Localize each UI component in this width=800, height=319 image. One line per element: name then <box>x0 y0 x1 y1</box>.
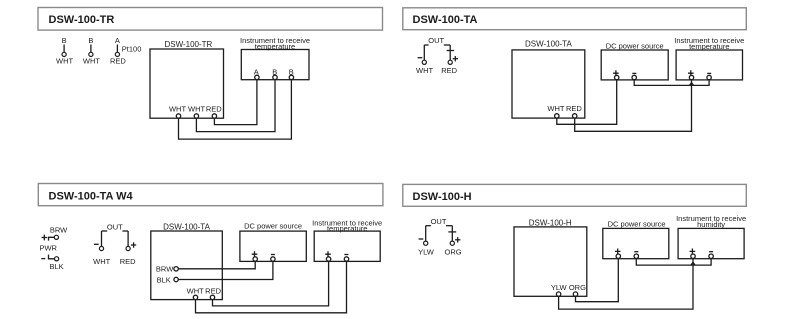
svg-text:DC power source: DC power source <box>606 41 664 50</box>
terminal circle U7 ORG <box>573 292 577 296</box>
svg-text:DSW-100-TR: DSW-100-TR <box>49 14 115 26</box>
terminal circle U5 BRW <box>174 267 178 271</box>
terminal circle U3 WHT <box>555 114 559 118</box>
svg-text:DC power source: DC power source <box>608 219 666 228</box>
panel title box DSW-100-TR <box>38 8 383 31</box>
svg-text:WHT: WHT <box>169 104 186 113</box>
svg-text:DSW-100-TA W4: DSW-100-TA W4 <box>49 191 134 203</box>
output connector OUT (Q2) <box>416 36 458 75</box>
component U3 DSW-100-TA box <box>512 40 585 118</box>
terminal circle U5 RED <box>210 295 214 299</box>
terminal label - (PS1) <box>632 72 636 74</box>
terminal label + (U4) <box>688 70 694 76</box>
svg-text:WHT: WHT <box>416 66 433 75</box>
svg-text:A: A <box>115 36 120 45</box>
terminal label + (PS1) <box>613 70 619 76</box>
svg-text:RED: RED <box>206 104 222 113</box>
sensor pin B (WHT) 2 <box>83 36 100 66</box>
terminal circle U8 + <box>691 254 695 258</box>
terminal circle U4 - <box>707 75 711 79</box>
panel title box DSW-100-TA W4 <box>38 184 383 206</box>
terminal circle U1 WHT1 <box>176 114 180 118</box>
svg-text:YLW: YLW <box>418 248 435 257</box>
svg-text:BLK: BLK <box>50 262 64 271</box>
terminal label - (U4) <box>707 72 711 74</box>
terminal circle PS3 - <box>634 254 638 258</box>
svg-text:RED: RED <box>120 257 136 266</box>
terminal circle PS1 + <box>615 75 619 79</box>
svg-text:BRW: BRW <box>156 265 174 274</box>
terminal label + (U6) <box>325 251 331 257</box>
svg-text:OUT: OUT <box>431 217 447 226</box>
terminal circle PS2 + <box>253 257 257 261</box>
wire U3 WHT to PS1 + <box>557 80 617 125</box>
terminal circle U7 YLW <box>556 292 560 296</box>
wire PS3 - to U8 - <box>636 258 711 265</box>
terminal label - (PS2) <box>271 254 275 256</box>
terminal label + (U8) <box>690 249 696 255</box>
component PS1 DC power source box (Q2) <box>601 41 668 80</box>
terminal label - (PS3) <box>634 251 638 253</box>
component U1 DSW-100-TR transmitter box <box>150 40 224 118</box>
wire hop at crossing (Q2) <box>689 83 694 86</box>
svg-text:BRW: BRW <box>50 226 68 235</box>
terminal circle U2 B1 <box>273 75 277 79</box>
component PS3 DC power source box (Q4) <box>603 219 669 258</box>
wire U5 BRW to PS2 + <box>178 261 255 269</box>
component U5 DSW-100-TA box (Q3) <box>151 223 223 300</box>
terminal circle U3 RED <box>573 114 577 118</box>
terminal label + (PS3) <box>615 249 621 255</box>
power connector PWR (BRW/BLK) <box>39 226 68 271</box>
terminal circle U8 - <box>709 254 713 258</box>
terminal label - (U6) <box>344 254 348 256</box>
terminal circle U2 B2 <box>289 75 293 79</box>
output connector OUT (Q4) <box>418 217 462 257</box>
svg-text:OUT: OUT <box>107 222 123 231</box>
component U4 instrument to receive temperature box (Q2) <box>674 36 744 80</box>
sensor pin B (WHT) 1 <box>56 36 73 66</box>
terminal circle U4 + <box>689 75 693 79</box>
panel title box DSW-100-H <box>403 184 747 206</box>
component U8 instrument to receive humidity box <box>676 214 746 258</box>
component U2 instrument to receive temperature box <box>240 36 310 80</box>
svg-text:WHT: WHT <box>187 287 204 296</box>
wire U1 RED to U2 A <box>214 80 257 125</box>
svg-text:WHT: WHT <box>83 57 100 66</box>
svg-text:DSW-100-TA: DSW-100-TA <box>525 40 572 49</box>
wire U5 RED to U6 + <box>213 261 329 306</box>
svg-text:WHT: WHT <box>93 257 110 266</box>
svg-text:RED: RED <box>566 104 582 113</box>
terminal circle U1 WHT2 <box>194 114 198 118</box>
svg-text:DC power source: DC power source <box>244 221 302 230</box>
svg-text:DSW-100-TA: DSW-100-TA <box>413 14 478 26</box>
terminal circle U6 - <box>344 257 348 261</box>
svg-text:OUT: OUT <box>428 36 444 45</box>
terminal circle U6 + <box>326 257 330 261</box>
terminal circle PS2 - <box>271 257 275 261</box>
terminal circle U1 RED <box>212 114 216 118</box>
output connector OUT (Q3) <box>93 222 136 266</box>
svg-text:RED: RED <box>110 57 126 66</box>
wire U3 RED to U4 + <box>575 80 692 132</box>
svg-text:DSW-100-TA: DSW-100-TA <box>163 223 210 232</box>
svg-text:WHT: WHT <box>547 104 564 113</box>
terminal circle U5 BLK <box>174 277 178 281</box>
svg-text:BLK: BLK <box>157 275 171 284</box>
svg-text:WHT: WHT <box>56 57 73 66</box>
svg-text:DSW-100-H: DSW-100-H <box>413 191 472 203</box>
svg-text:RED: RED <box>441 66 457 75</box>
wire U7 ORG to PS3 + <box>576 258 619 301</box>
svg-text:DSW-100-TR: DSW-100-TR <box>164 40 212 49</box>
terminal circle PS3 + <box>616 254 620 258</box>
svg-text:WHT: WHT <box>188 104 205 113</box>
svg-text:B: B <box>88 36 93 45</box>
terminal label - (U8) <box>709 251 713 253</box>
component U6 instrument to receive temperature box (Q3) <box>312 218 382 261</box>
svg-text:PWR: PWR <box>39 244 57 253</box>
svg-text:B: B <box>62 36 67 45</box>
terminal circle U2 A <box>255 75 259 79</box>
svg-text:RED: RED <box>205 287 221 296</box>
wire U1 WHT2 to U2 B1 <box>196 80 275 132</box>
wire U7 YLW to U8 + <box>559 258 693 309</box>
wire PS1 - to U4 - <box>634 80 709 86</box>
svg-text:ORG: ORG <box>569 283 586 292</box>
wire U1 WHT1 to U2 B2 <box>179 80 292 140</box>
svg-text:temperature: temperature <box>327 224 367 233</box>
wire U5 BLK to PS2 - <box>178 261 273 279</box>
terminal circle U5 WHT <box>193 295 197 299</box>
svg-text:ORG: ORG <box>445 248 462 257</box>
sensor pin A (RED) Pt100 <box>110 36 126 66</box>
terminal circle PS1 - <box>632 75 636 79</box>
component U7 DSW-100-H box <box>514 219 587 297</box>
panel title box DSW-100-TA <box>403 8 747 30</box>
svg-text:Pt100: Pt100 <box>122 45 142 54</box>
wire hop at crossing (Q4) <box>691 262 696 265</box>
terminal label + (PS2) <box>252 251 258 257</box>
wire U5 WHT to U6 - <box>196 261 347 313</box>
component PS2 DC power source box (Q3) <box>240 221 306 261</box>
svg-text:YLW: YLW <box>551 283 568 292</box>
